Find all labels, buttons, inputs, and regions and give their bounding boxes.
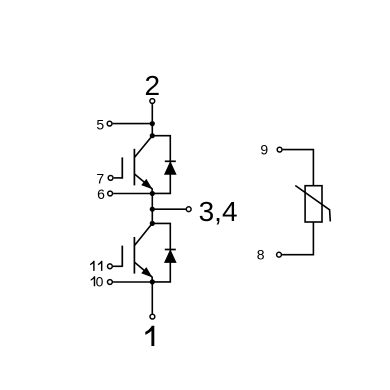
transistor T1 gate lead bbox=[114, 177, 123, 179]
wire node 3,4 to terminal bbox=[152, 208, 185, 210]
diode D2 triangle bbox=[165, 250, 176, 262]
svg-text:3,4: 3,4 bbox=[199, 196, 238, 227]
pin 9 circle bbox=[277, 147, 282, 152]
junction top collector node bbox=[150, 133, 155, 138]
diode D1 cathode bar bbox=[165, 160, 176, 162]
transistor T2 emitter arrow bbox=[142, 268, 152, 277]
pin 9 label bbox=[260, 141, 268, 157]
terminal 1 circle bbox=[150, 314, 155, 319]
pin 8 circle bbox=[277, 252, 282, 257]
svg-text:8: 8 bbox=[257, 247, 265, 263]
wire thermistor to pin 8 bbox=[282, 222, 313, 255]
transistor T1 body bar bbox=[133, 149, 135, 186]
diode D1 branch wire bbox=[152, 136, 170, 194]
thermistor R1 diagonal stroke bbox=[295, 186, 330, 222]
svg-text:7: 7 bbox=[96, 170, 104, 186]
pin 6 label bbox=[97, 186, 105, 202]
pin 5 circle bbox=[107, 121, 112, 126]
pin 11 label bbox=[90, 261, 102, 271]
transistor T2 collector diagonal bbox=[135, 223, 153, 245]
transistor T2 gate bar bbox=[121, 246, 123, 267]
transistor T1 emitter diagonal bbox=[134, 174, 152, 194]
terminal 3,4 circle bbox=[186, 207, 191, 212]
terminal 1 label bbox=[145, 326, 154, 346]
pin 7 circle bbox=[108, 176, 113, 181]
junction bottom emitter node bbox=[150, 279, 155, 284]
wire pin 5 to bus bbox=[113, 123, 153, 125]
pin 10 circle bbox=[108, 280, 113, 285]
pin 11 circle bbox=[108, 264, 113, 269]
wire emitter node to terminal 1 bbox=[151, 282, 153, 314]
diode D1 triangle bbox=[165, 162, 176, 174]
junction node 3,4 bbox=[150, 207, 155, 212]
transistor T1 collector diagonal bbox=[135, 136, 153, 158]
diode D2 cathode bar bbox=[165, 249, 176, 251]
transistor T1 emitter arrow bbox=[142, 180, 152, 189]
svg-text:6: 6 bbox=[97, 186, 105, 202]
transistor T1 gate bar bbox=[121, 157, 123, 178]
pin 10 label bbox=[91, 273, 104, 289]
transistor T2 body bar bbox=[133, 237, 135, 274]
pin 7 label bbox=[96, 170, 104, 186]
pin 6 circle bbox=[108, 191, 113, 196]
svg-text:5: 5 bbox=[96, 116, 104, 132]
terminal 2 label bbox=[145, 70, 161, 101]
svg-text:0: 0 bbox=[96, 273, 104, 289]
transistor T2 gate lead bbox=[113, 265, 122, 267]
junction bottom collector node bbox=[150, 221, 155, 226]
pin 8 label bbox=[257, 247, 265, 263]
svg-text:2: 2 bbox=[145, 70, 161, 101]
junction pin 5 node bbox=[150, 121, 155, 126]
svg-text:9: 9 bbox=[260, 141, 268, 157]
thermistor R1 body bbox=[305, 186, 322, 222]
wire terminal 2 to collector node bbox=[151, 104, 153, 136]
wire center bus bbox=[151, 194, 153, 224]
pin 5 label bbox=[96, 116, 104, 132]
terminal 3,4 label bbox=[199, 196, 238, 227]
wire pin 9 to thermistor bbox=[283, 150, 314, 186]
wire pin 6 to emitter node bbox=[113, 193, 152, 195]
diode D2 branch wire bbox=[152, 223, 170, 282]
wire pin 10 to emitter node bbox=[113, 281, 152, 283]
junction top emitter node bbox=[150, 191, 155, 196]
terminal 2 circle bbox=[150, 99, 155, 104]
transistor T2 emitter diagonal bbox=[134, 262, 152, 282]
